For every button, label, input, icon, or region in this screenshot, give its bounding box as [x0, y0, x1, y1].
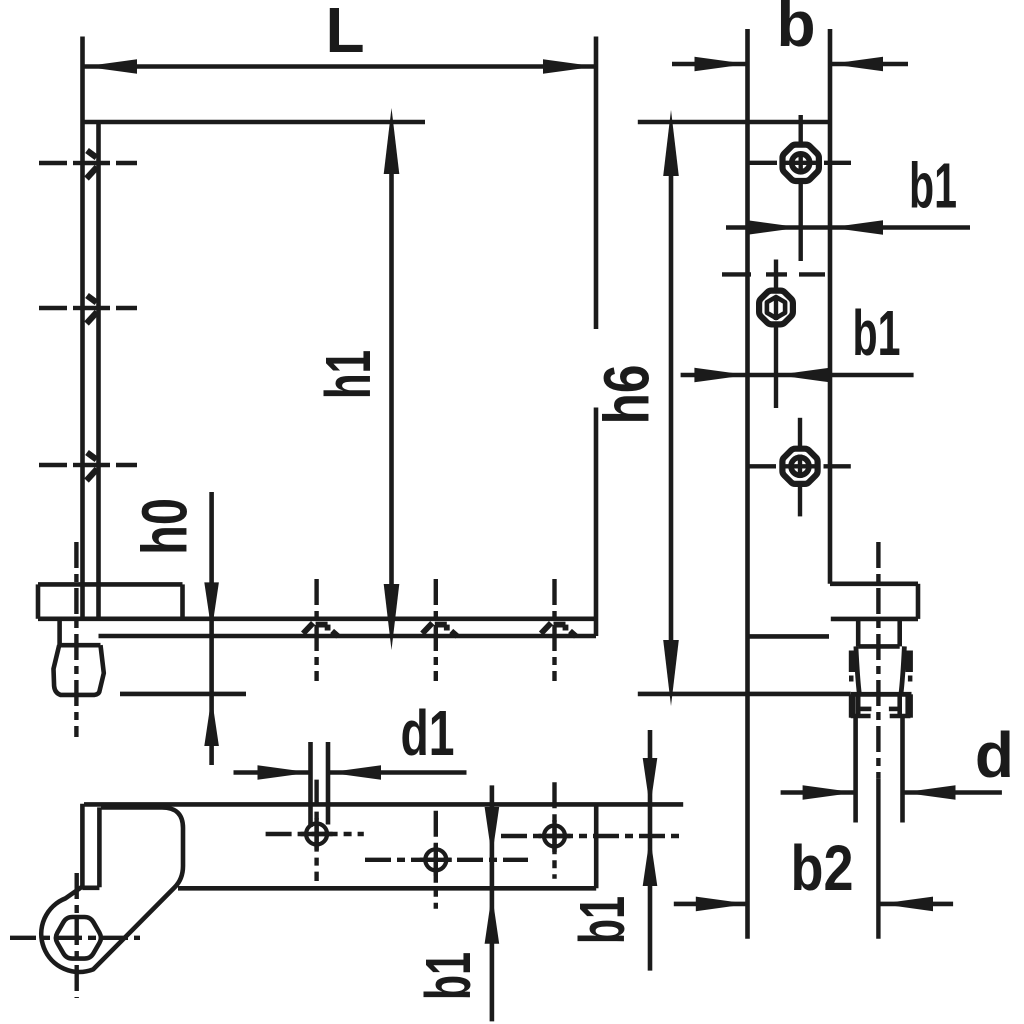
bottom view: lug outline	[41, 808, 183, 972]
right view: bolt 2 head	[759, 291, 793, 325]
dimension b1 bottom-left line	[490, 785, 495, 1021]
right view: bolt 3 head	[782, 449, 817, 484]
bottom view: rail right edge	[594, 804, 599, 888]
bottom view: lug hole horizontal centerline	[10, 936, 140, 940]
right view: clamp nut bracket lines	[851, 709, 911, 716]
front view: right end vertical (lower)	[594, 408, 599, 637]
bottom view: rail bottom edge	[178, 886, 596, 891]
front view: vertical leg right edge	[96, 122, 101, 619]
dimension b1 lower left-pointing arrow	[777, 368, 830, 383]
dimension L right arrow	[543, 59, 596, 74]
right view: bolt 3 horizontal centerline	[747, 464, 851, 468]
right view: bolt 2 vertical centerline	[774, 260, 778, 409]
svg-text:L: L	[325, 0, 364, 66]
dimension h0 bottom reference line	[120, 692, 246, 697]
dimension L left arrow	[84, 59, 137, 74]
label b1 lower	[853, 297, 901, 369]
dimension b1 lower right-pointing arrow	[694, 368, 747, 383]
right view: clamp nut lower bars	[849, 694, 913, 717]
bottom view: hole 2	[420, 844, 452, 876]
right view: clamp bolt shank	[858, 619, 900, 646]
label L	[325, 0, 364, 66]
dimension b1 bottom-right down arrow	[643, 758, 658, 808]
right view: top edge / h6 extension	[638, 120, 830, 125]
svg-text:b1: b1	[853, 297, 901, 369]
svg-text:b: b	[776, 0, 815, 60]
label b1 bottom-left	[412, 952, 484, 1000]
dimension h6 top arrow	[663, 110, 679, 176]
bottom view: lug hex hole	[56, 917, 101, 959]
bottom view: rail top edge / b1 extension	[84, 802, 683, 807]
front view: right end vertical / L extension line (upper)	[594, 37, 599, 330]
dimension L line	[84, 64, 596, 69]
label b1 upper	[909, 150, 957, 222]
bottom view: hole 3	[539, 820, 571, 852]
svg-text:d1: d1	[401, 697, 455, 769]
bottom view: hole 3 vertical centerline	[552, 782, 556, 879]
dimension b1 bottom-right up arrow	[643, 836, 658, 886]
front view: plate hole centerline 1	[314, 579, 318, 681]
bottom view: hole 3 horizontal centerline	[501, 834, 683, 838]
dimension b1 upper left-pointing arrow	[830, 220, 883, 235]
dimension d line left	[781, 790, 856, 795]
right view: clamp bolt d extension lines	[856, 718, 903, 823]
svg-text:b1: b1	[909, 150, 957, 222]
bottom view: flange strip	[82, 804, 99, 889]
dimension d1 left-pointing arrow	[328, 765, 381, 780]
dimension d left arrow	[803, 785, 856, 800]
label b2	[791, 832, 854, 904]
right view: hole cross mark	[722, 272, 825, 276]
front view: hook jaw outline	[54, 645, 104, 695]
dimension b left arrow	[695, 57, 748, 72]
right view: clamp nut body	[851, 646, 912, 694]
dimension b1 bottom-left down arrow	[485, 807, 500, 857]
label b1 bottom-right	[566, 896, 638, 944]
dimension h1 top arrow	[384, 108, 400, 174]
dimension b line right	[830, 62, 908, 67]
front view: plate hole centerline 3	[552, 579, 556, 681]
front view: foot plate	[38, 584, 183, 618]
dimension h1 line	[389, 174, 394, 584]
dimension b1 upper right-pointing arrow	[748, 220, 801, 235]
svg-text:h6: h6	[591, 365, 663, 425]
dimension b1 lower line	[681, 373, 914, 378]
bottom view: lug hole vertical centerline	[74, 873, 78, 998]
svg-text:b1: b1	[566, 896, 638, 944]
right view: bolt 1 horizontal centerline	[747, 161, 851, 165]
dimension d right arrow	[903, 785, 956, 800]
right view: left edge / b2 extension	[745, 29, 750, 939]
front view: plate hole centerline 2	[434, 579, 438, 681]
dimension d1 right-pointing arrow	[258, 765, 311, 780]
dimension h0 line	[209, 492, 214, 765]
dimension d1 line right	[328, 770, 467, 775]
dimension b2 line right	[880, 902, 953, 907]
right view: bolt 1 head	[783, 145, 819, 181]
dimension d line right	[903, 790, 1002, 795]
front view: plate hole marker 1	[303, 623, 338, 636]
front view: vertical leg left edge / L extension line	[80, 37, 85, 619]
dimension h6 line	[669, 176, 674, 640]
bottom view: hole 1	[301, 818, 333, 850]
dimension b1 upper line	[726, 225, 970, 230]
label b	[776, 0, 815, 60]
bottom view: hole 2 vertical centerline	[434, 811, 438, 909]
label h0	[129, 498, 201, 555]
svg-text:d: d	[975, 719, 1014, 791]
front view: bottom plate top edge	[38, 616, 596, 621]
dimension h0 down arrow	[204, 582, 219, 631]
right view: clamp nut side tabs	[849, 651, 913, 682]
front view: leg hole centerline 2	[39, 306, 137, 310]
svg-text:h0: h0	[129, 498, 201, 555]
dimension b1 bottom-left up arrow	[485, 894, 500, 944]
front view: hook centerline	[74, 542, 78, 737]
dimension d1 extension lines	[311, 742, 329, 827]
front view: bottom plate bottom edge	[99, 634, 597, 639]
dimension b1 bottom-right line	[648, 730, 653, 971]
label d1	[401, 697, 455, 769]
label h6	[591, 365, 663, 425]
front view: hook neck	[58, 619, 101, 645]
dimension b2 right arrow	[880, 897, 933, 912]
dimension d1 line left	[234, 770, 311, 775]
front view: leg hole marker 1	[87, 151, 98, 179]
front view: leg hole marker 2	[87, 296, 98, 324]
dimension b2 left arrow	[696, 897, 749, 912]
svg-text:b1: b1	[412, 952, 484, 1000]
dimension h6 bottom arrow	[663, 640, 679, 706]
dimension b line left	[672, 62, 748, 67]
dimension b right arrow	[830, 57, 883, 72]
right view: bolt 3 vertical centerline	[798, 418, 802, 517]
front view: leg hole marker 3	[87, 453, 98, 481]
dimension h1 bottom arrow	[384, 584, 400, 650]
svg-text:h1: h1	[312, 350, 384, 399]
dimension h6 bottom reference line	[638, 692, 851, 697]
right view: body bottom edge	[748, 634, 830, 639]
front view: part top edge	[84, 120, 425, 125]
bottom view: hole 1 horizontal centerline	[266, 832, 364, 836]
dimension h0 up arrow	[204, 697, 219, 746]
front view: leg hole centerline 3	[39, 463, 137, 467]
front view: plate hole marker 3	[541, 623, 576, 636]
label h1	[312, 350, 384, 399]
dimension b2 line left	[674, 902, 749, 907]
right view: right edge	[828, 29, 833, 584]
bottom view: hole 1 vertical centerline	[314, 780, 318, 881]
right view: foot plate	[830, 584, 918, 619]
bottom view: hole 2 horizontal centerline	[365, 858, 528, 862]
svg-text:b2: b2	[791, 832, 854, 904]
right view: clamp bolt centerline	[876, 542, 880, 939]
front view: leg hole centerline 1	[39, 161, 137, 165]
right view: bolt 1 vertical centerline	[799, 115, 803, 261]
label d	[975, 719, 1014, 791]
front view: plate hole marker 2	[422, 623, 457, 636]
